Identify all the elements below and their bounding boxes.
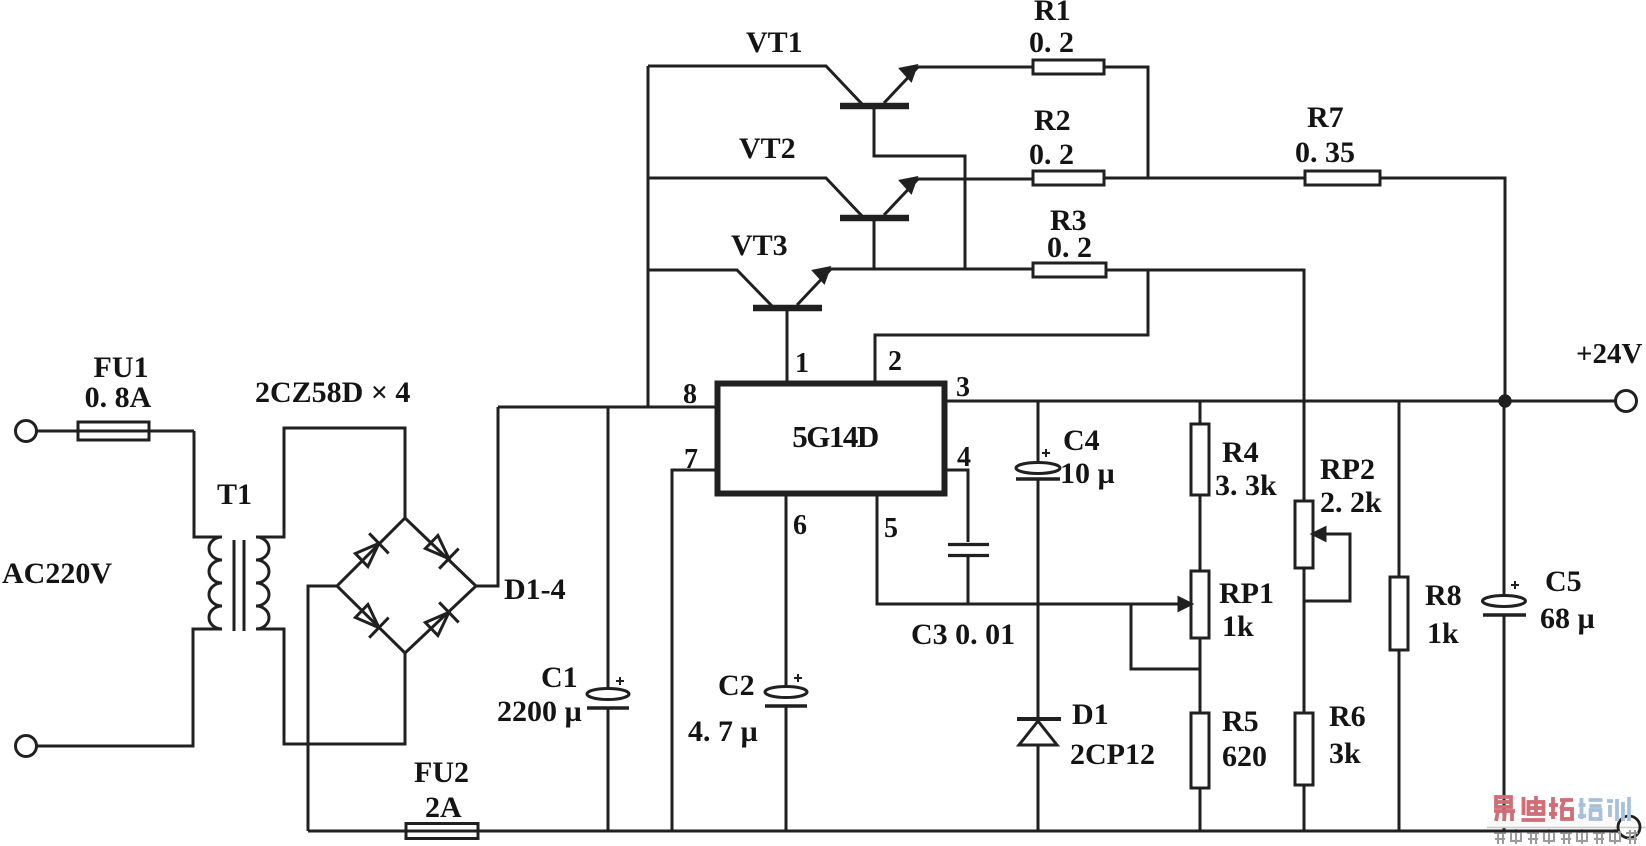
wire R2 to R7 [1104,177,1305,180]
IC U1 5G14D [718,384,945,494]
wire IC pin 2 to R3 rail [875,270,1148,381]
wire transistor base bus [647,66,650,407]
svg-text:VT3: VT3 [731,229,788,262]
resistor R5 620 [1191,713,1209,831]
wire VT1 collector [874,109,965,270]
svg-text:5: 5 [884,513,898,544]
diode D bottom-left [352,601,389,638]
svg-text:C1: C1 [541,661,578,694]
svg-text:68 µ: 68 µ [1540,602,1595,635]
wire bridge right vertex to pin8 rail [476,407,498,586]
svg-text:2: 2 [888,346,902,377]
svg-text:0. 2: 0. 2 [1029,26,1074,59]
wire pin 4 to C3 [947,470,968,542]
watermark char di [1522,796,1546,820]
svg-text:0. 35: 0. 35 [1295,136,1355,169]
fuse FU2 2A [406,824,478,839]
svg-text:0. 2: 0. 2 [1029,138,1074,171]
wire C3 to pin5 rail [967,557,970,604]
svg-text:6: 6 [793,510,807,541]
wire pin 3 output bus [947,400,1615,403]
svg-text:R8: R8 [1425,579,1462,612]
fuse FU1 0.8A [78,422,149,440]
svg-text:0. 8A: 0. 8A [85,381,152,414]
wire pin 5 to RP1 wiper arrow [877,496,1191,610]
transformer T1 primary winding [209,537,222,629]
resistor R2 0.2 [1033,171,1104,185]
svg-text:D1: D1 [1072,698,1109,731]
capacitor C3 0.01 [948,545,989,556]
terminal output bottom right [1618,816,1640,838]
wire secondary top to bridge top vertex [256,428,405,537]
wire bottom bus [308,830,1618,833]
resistor R7 0.35 [1305,171,1380,185]
svg-text:1k: 1k [1427,617,1459,650]
capacitor C4 10u [1016,449,1060,479]
wire RP1 wiper jog [1131,604,1200,669]
diode D bottom-right [422,602,459,639]
svg-text:10 µ: 10 µ [1060,457,1115,490]
svg-text:RP1: RP1 [1219,577,1274,610]
svg-text:RP2: RP2 [1320,453,1375,486]
svg-text:2200 µ: 2200 µ [497,695,582,728]
transistor VT3 [648,268,1033,308]
resistor R1 0.2 [1033,60,1104,74]
svg-text:620: 620 [1222,740,1267,773]
svg-text:R1: R1 [1034,0,1071,27]
svg-text:7: 7 [684,444,698,475]
svg-text:5G14D: 5G14D [792,419,878,454]
transistor VT2 [648,178,1033,218]
watermark char yi [1494,797,1515,821]
watermark band [1487,818,1646,828]
potentiometer RP2 2.2k [1295,501,1350,601]
svg-text:2CP12: 2CP12 [1070,738,1155,771]
wire VT3 collector to pin 1 [786,311,789,381]
transistor VT1 [648,66,1033,106]
svg-text:D1-4: D1-4 [504,573,566,606]
svg-text:0. 2: 0. 2 [1047,231,1092,264]
svg-text:C5: C5 [1545,565,1582,598]
transformer T1 secondary winding [256,537,269,629]
capacitor C2 4.7u [765,674,807,706]
svg-text:C2: C2 [718,669,755,702]
svg-text:+24V: +24V [1576,338,1643,370]
junction node +24V [1500,396,1510,406]
transformer T1 core [234,540,244,631]
svg-text:R7: R7 [1307,101,1344,134]
watermark char pei [1578,798,1603,819]
wire pin 6 to C2 [785,496,788,831]
terminal input top [16,421,37,442]
svg-text:R4: R4 [1222,436,1259,469]
resistor R6 3k [1295,713,1313,831]
wire primary bottom to terminal [37,629,222,746]
svg-text:R6: R6 [1329,700,1366,733]
wire secondary bottom to bridge bottom vertex [256,629,405,744]
capacitor C5 68u [1483,581,1527,615]
wire C4 riser [1037,401,1040,717]
diode D top-left [352,533,389,570]
svg-text:AC220V: AC220V [2,557,112,590]
svg-text:4: 4 [957,442,971,473]
wire R7 to +24V rail [1380,178,1505,401]
svg-text:C3 0. 01: C3 0. 01 [911,618,1015,651]
watermark char xun [1607,797,1629,821]
wire R3 to RP2 riser [1106,270,1304,501]
svg-text:T1: T1 [217,478,252,511]
terminal +24V output [1616,391,1637,412]
svg-text:1: 1 [795,348,809,379]
wire input top to FU1 [37,430,195,433]
svg-text:3k: 3k [1329,737,1361,770]
svg-text:4. 7 µ: 4. 7 µ [688,715,758,748]
svg-text:FU1: FU1 [94,351,149,384]
watermark subtitle gray chars [1494,829,1638,844]
wire RP2 riser from R3 [1303,568,1306,713]
svg-text:2. 2k: 2. 2k [1320,486,1382,519]
terminal input bottom [16,736,37,757]
zener diode D1 2CP12 [1017,719,1061,831]
svg-text:2CZ58D × 4: 2CZ58D × 4 [255,376,410,409]
svg-text:R5: R5 [1222,705,1259,738]
wire bridge left vertex to bottom bus [308,586,337,831]
bridge rectifier diamond D1-4 [337,518,476,653]
resistor R4 3.3k [1191,401,1209,571]
wire bottom bus over watermark [1480,830,1618,833]
wire pin8 rail [498,406,715,409]
svg-text:2A: 2A [425,791,462,824]
wire FU1 to transformer primary top [194,431,222,537]
svg-text:8: 8 [683,379,697,410]
resistor R8 1k [1390,401,1408,831]
potentiometer RP1 1k [1191,571,1209,713]
svg-text:VT2: VT2 [739,132,796,165]
svg-text:3: 3 [956,372,970,403]
svg-text:FU2: FU2 [414,756,469,789]
wire pin 7 to bottom bus [672,470,715,831]
svg-text:1k: 1k [1222,610,1254,643]
svg-text:VT1: VT1 [746,26,803,59]
wire R1 to R2 rail [1104,67,1148,178]
capacitor C1 2200u [587,677,629,708]
wire VT2 collector [873,221,876,270]
wire C1 riser [607,407,610,831]
svg-text:C4: C4 [1063,424,1100,457]
resistor R3 0.2 [1033,263,1106,277]
watermark char tuo [1549,797,1573,819]
wire C5 riser [1503,401,1506,831]
svg-text:R2: R2 [1034,104,1071,137]
diode D top-right [422,532,459,569]
svg-text:3. 3k: 3. 3k [1215,469,1277,502]
